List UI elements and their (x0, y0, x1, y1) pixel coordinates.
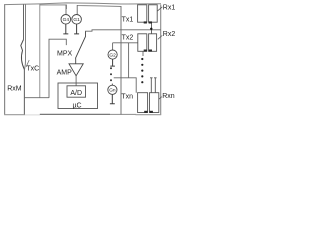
connector Rx1 left pin box (138, 5, 147, 22)
enclosure bottom edge (4, 114, 25, 116)
wire: Tx2 drop to Rxn connector (128, 43, 130, 78)
enclosure top edge (4, 3, 161, 5)
svg-text:Txn: Txn (121, 93, 133, 100)
connector Rxn right pin box (150, 93, 159, 113)
Gn contact stub (110, 94, 115, 103)
svg-text:G4: G4 (63, 17, 70, 23)
ellipsis dots connector column (141, 58, 143, 60)
A/D converter box (67, 86, 86, 97)
gain G2 riser wire and Tx2 wire (113, 43, 138, 50)
svg-text:µC: µC (72, 103, 81, 110)
wire: Txn feed (114, 78, 137, 93)
gain Gn circle (111, 84, 113, 86)
leader line Rxn (159, 97, 162, 100)
gain G4 riser wire (65, 5, 67, 15)
svg-text:G1: G1 (73, 17, 80, 23)
svg-text:G2: G2 (109, 52, 116, 58)
connector Rx2 right pin box (149, 34, 157, 52)
svg-text:MPX: MPX (57, 51, 73, 58)
leader line TxC (26, 60, 29, 67)
svg-text:A/D: A/D (70, 90, 82, 97)
Rx1 pads (144, 21, 147, 23)
wire: bottom horizontal from coil to MPX riser (24, 97, 49, 99)
svg-text:TxC: TxC (26, 65, 39, 72)
coil TxC/RxM right conductor (25, 4, 26, 69)
connector Rx2 left pin box (138, 34, 147, 52)
microcontroller box (58, 83, 98, 109)
wire: amplifier output to A/D (75, 76, 77, 86)
svg-text:Rx1: Rx1 (163, 4, 176, 11)
wire: coil feed from top edge (39, 4, 41, 98)
wire: G1 feed to bus V1 (77, 5, 121, 6)
gain G2 circle (108, 50, 117, 59)
wire: switch pivot to amplifier (75, 58, 77, 64)
leader line Rx1 (157, 7, 162, 11)
wire: Rx1 junction (151, 23, 153, 33)
gain G1 circle (72, 14, 82, 24)
svg-text:Tx2: Tx2 (122, 34, 134, 41)
wire: MPX common bus H1 to receive pins (85, 30, 161, 31)
connector Rx1 right pin box (149, 5, 158, 22)
svg-text:Rxn: Rxn (162, 93, 175, 100)
amplifier triangle (69, 64, 83, 76)
connector Rxn left pin box (138, 93, 148, 113)
svg-text:Rx2: Rx2 (163, 31, 176, 38)
junction dot Rx1/Rx2 (150, 28, 152, 30)
wire: Rxn stubs (150, 78, 157, 93)
gain G1 riser wire (76, 5, 78, 14)
G1 contact stub (74, 24, 79, 34)
enclosure right edge (160, 5, 162, 115)
coil crossover kink (21, 40, 25, 70)
ellipsis dots G column (110, 67, 112, 69)
Rxn pads (144, 111, 147, 113)
svg-text:Tx1: Tx1 (122, 16, 134, 23)
wire: G4 feed from coil riser (40, 5, 67, 9)
vertical bus V1 (120, 6, 122, 114)
G4 contact stub (63, 24, 68, 34)
stub under Rx2 left pin (142, 51, 144, 56)
wire: MPX input riser (49, 39, 66, 98)
Rx2 pads (144, 50, 147, 52)
enclosure left edge (4, 4, 6, 114)
coil lower single conductor (23, 69, 25, 114)
svg-text:AMP: AMP (57, 70, 73, 77)
gain G4 circle (61, 14, 71, 24)
G2 contact stub (110, 59, 115, 66)
coil TxC/RxM left conductor (23, 4, 25, 39)
MPX switch lever (75, 31, 85, 58)
svg-text:Gn: Gn (109, 88, 116, 94)
leader line Rx2 (158, 35, 163, 39)
svg-text:RxM: RxM (7, 86, 22, 93)
